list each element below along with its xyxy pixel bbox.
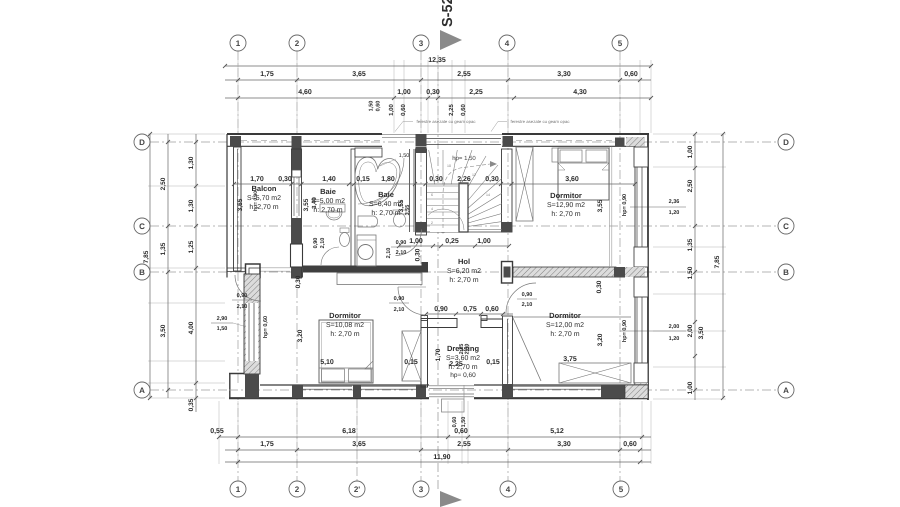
extension line right [653, 246, 726, 248]
extension line left [148, 382, 225, 384]
dim tick [217, 435, 221, 439]
wall top outer line thin mid [382, 134, 502, 136]
svg-text:2,10: 2,10 [394, 307, 405, 313]
extension line right [653, 330, 726, 332]
grid line 2' [356, 399, 358, 481]
dim line hol y246 [399, 245, 509, 247]
dim tick [300, 182, 304, 186]
extension line top [420, 60, 422, 133]
balcony door frame box [246, 264, 261, 278]
svg-text:A: A [139, 386, 145, 395]
svg-text:3,65: 3,65 [352, 441, 366, 448]
svg-text:B: B [783, 268, 789, 277]
svg-text:4: 4 [505, 39, 510, 48]
svg-text:0,15: 0,15 [486, 359, 500, 366]
svg-text:S=12,00 m2: S=12,00 m2 [546, 322, 584, 329]
grid line B [150, 271, 778, 273]
column grid5-B [614, 267, 625, 277]
svg-text:0,75: 0,75 [463, 306, 477, 313]
svg-text:Dormitor: Dormitor [549, 311, 581, 320]
svg-text:2,55: 2,55 [457, 71, 471, 78]
svg-text:hp= 0,90: hp= 0,90 [622, 194, 628, 216]
glazing grid2 wall mid [293, 177, 295, 216]
extension line top [427, 60, 429, 133]
wall left lower [244, 274, 260, 374]
dim tick [439, 244, 443, 248]
extension line bottom [296, 401, 298, 464]
corner column A-left [245, 375, 259, 399]
wardrobe dormitor top-right [516, 147, 533, 221]
svg-text:0,90: 0,90 [313, 238, 319, 249]
column stair left bottom [416, 222, 427, 233]
grid bubble 4 bottom [500, 481, 516, 497]
dim tick [236, 96, 240, 100]
dim tick [166, 270, 170, 274]
wall dressing top left [421, 319, 457, 328]
extension line top [437, 60, 439, 133]
grid bubble 1 top [230, 35, 246, 51]
dim tick [446, 435, 450, 439]
column grid2-B [292, 267, 303, 278]
wall top center dash [241, 140, 291, 142]
dim tick [510, 182, 514, 186]
svg-text:1,75: 1,75 [260, 71, 274, 78]
balcony parapet [234, 147, 242, 271]
extension line right [653, 133, 726, 135]
glass band baie2 top [382, 137, 416, 139]
dim tick [499, 182, 503, 186]
svg-text:Hol: Hol [458, 257, 470, 266]
grid bubble 2' bottom [349, 481, 365, 497]
svg-text:0,60: 0,60 [400, 104, 407, 116]
dim tick [431, 244, 435, 248]
wall top outer line thick left [227, 133, 382, 135]
extension line top [296, 60, 298, 133]
svg-text:2,10: 2,10 [237, 304, 248, 310]
svg-text:1,50: 1,50 [217, 326, 228, 332]
column grid3-D [416, 134, 427, 147]
window frame box right low [634, 363, 648, 383]
dormitor2 top edge [513, 316, 631, 318]
dim line y314 corridor [426, 313, 513, 315]
extension line right [653, 398, 726, 400]
svg-text:3,30: 3,30 [557, 71, 571, 78]
extension line left [148, 185, 225, 187]
wall baie2 right [409, 149, 411, 232]
svg-text:3,55: 3,55 [405, 205, 411, 216]
svg-text:5,12: 5,12 [550, 428, 564, 435]
svg-text:1,00: 1,00 [687, 145, 694, 158]
section marker top [440, 30, 462, 50]
extension line bottom [447, 401, 449, 464]
svg-text:1,40: 1,40 [322, 176, 336, 183]
dim tick [236, 448, 240, 452]
svg-text:0,30: 0,30 [295, 275, 302, 288]
svg-text:0,60: 0,60 [623, 441, 637, 448]
dim tick [693, 354, 697, 358]
svg-text:0,60: 0,60 [452, 417, 458, 428]
door arc balcony bottom [235, 275, 261, 301]
wall top inner line right [502, 145, 635, 147]
grid bubble 1 bottom [230, 481, 246, 497]
corner tub baie2 [355, 157, 400, 206]
svg-text:2': 2' [354, 485, 360, 494]
column grid2-A [292, 385, 303, 398]
window frame box right mid1 [634, 247, 648, 267]
bed bottom-left [319, 320, 373, 383]
svg-text:1,50: 1,50 [461, 417, 467, 428]
svg-text:2,36: 2,36 [669, 199, 680, 205]
window sill grid2 [292, 170, 301, 177]
dim tick [506, 78, 510, 82]
grid line C [150, 225, 778, 227]
svg-text:1,75: 1,75 [260, 441, 274, 448]
column grid5-B2 [614, 267, 625, 278]
corner column A-left dark [245, 375, 259, 399]
svg-text:S-52: S-52 [440, 0, 456, 27]
svg-text:4,60: 4,60 [298, 89, 312, 96]
bed pillows top-right [560, 150, 582, 162]
wall top inner line left [227, 145, 382, 147]
section line S-52 [437, 55, 439, 490]
dim tick [693, 320, 697, 324]
dim tick [473, 244, 477, 248]
dim tick [232, 182, 236, 186]
wall bottom outer line [229, 397, 429, 399]
column dorm2 door-A [502, 385, 513, 398]
extension line left [148, 267, 225, 269]
column dorm2-A small [502, 384, 513, 397]
svg-text:0,55: 0,55 [210, 428, 224, 435]
stair fan treads [428, 145, 528, 230]
note leader left [395, 122, 413, 132]
grid line 1 [237, 51, 239, 481]
grid bubble C left [134, 218, 150, 234]
wall stair left [416, 149, 427, 235]
svg-text:1,25: 1,25 [188, 240, 195, 253]
svg-text:1,20: 1,20 [669, 210, 680, 216]
svg-text:3,50: 3,50 [160, 324, 167, 337]
stair bottom edge [427, 231, 502, 233]
extension line bottom [641, 401, 643, 464]
svg-text:0,35: 0,35 [188, 398, 195, 411]
dim tick [236, 460, 240, 464]
grid bubble 2 bottom [289, 481, 305, 497]
dim line left mid [167, 134, 169, 398]
svg-text:3,60: 3,60 [565, 176, 579, 183]
svg-text:0,30: 0,30 [415, 248, 422, 261]
sink baie1 [326, 212, 342, 220]
dim tick [693, 132, 697, 136]
dim tick [507, 244, 511, 248]
dim tick [352, 182, 356, 186]
dim line interior y184 [234, 183, 635, 185]
grid line 5 [619, 51, 621, 481]
svg-text:2,10: 2,10 [386, 248, 392, 259]
stair straight treads [427, 185, 459, 187]
dim tick [618, 448, 622, 452]
svg-text:2,10: 2,10 [396, 250, 407, 256]
svg-text:hp= 0,60: hp= 0,60 [263, 316, 269, 338]
svg-text:2,10: 2,10 [320, 238, 326, 249]
wall baie bottom [303, 266, 422, 273]
window right upper hp=0,90 [636, 167, 638, 247]
svg-text:2,55: 2,55 [457, 441, 471, 448]
window bottom lines 1 [303, 385, 352, 387]
svg-text:C: C [783, 222, 789, 231]
svg-text:0,60: 0,60 [460, 104, 467, 116]
extension line top [619, 60, 621, 133]
column dorm1 door-B [502, 262, 513, 284]
svg-text:2,25: 2,25 [469, 89, 483, 96]
dim tick [618, 78, 622, 82]
svg-text:ferestre asezate cu geam opac: ferestre asezate cu geam opac [417, 119, 477, 124]
dim line row3 bottom [225, 461, 651, 463]
dim tick [693, 166, 697, 170]
svg-text:hp= 0,60: hp= 0,60 [450, 372, 476, 379]
svg-text:0,15: 0,15 [404, 359, 418, 366]
dim tick [640, 435, 644, 439]
grid bubble 3 bottom [413, 481, 429, 497]
window stair top hp=1,50 [426, 138, 501, 140]
svg-text:0,25: 0,25 [445, 238, 459, 245]
svg-text:hp= 1,50: hp= 1,50 [452, 155, 476, 162]
svg-text:C: C [139, 222, 145, 231]
column grid2'-A [353, 385, 361, 398]
bed pillows bottom-left [322, 369, 345, 382]
svg-text:S=6,20 m2: S=6,20 m2 [447, 268, 481, 275]
svg-text:A: A [783, 386, 789, 395]
dim line row1 bottom [219, 436, 651, 438]
dim tick [693, 224, 697, 228]
svg-text:4,00: 4,00 [188, 321, 195, 334]
dim tick [466, 435, 470, 439]
bed top-right [558, 148, 609, 200]
extension line right [653, 366, 726, 368]
extension line right [653, 166, 726, 168]
svg-text:2: 2 [295, 485, 300, 494]
window niche baie2 [355, 148, 382, 157]
extension line bottom [420, 401, 422, 464]
extension line left [148, 397, 225, 399]
wall dormitor2 left vertical [503, 316, 513, 387]
column grid1-D [230, 136, 241, 147]
svg-text:h: 2,70 m: h: 2,70 m [551, 210, 580, 218]
svg-text:2: 2 [295, 39, 300, 48]
wall dressing top right [481, 319, 503, 328]
svg-text:Dormitor: Dormitor [329, 311, 361, 320]
column stair right bottom [502, 222, 513, 233]
svg-text:3,55: 3,55 [597, 199, 604, 212]
section marker bottom [440, 491, 462, 507]
svg-text:h: 2,70 m: h: 2,70 m [371, 209, 400, 217]
svg-text:1,80: 1,80 [381, 176, 395, 183]
dim tick [194, 224, 198, 228]
grid bubble A left [134, 382, 150, 398]
svg-text:0,90: 0,90 [434, 306, 448, 313]
svg-text:0,30: 0,30 [429, 176, 443, 183]
svg-text:2,25: 2,25 [448, 104, 455, 116]
dim tick [166, 224, 170, 228]
extension line bottom [619, 401, 621, 464]
dim tick [693, 388, 697, 392]
dim tick [424, 182, 428, 186]
bed blanket line [558, 162, 609, 164]
hatch right pier2 [635, 383, 648, 397]
dim line row2 top [225, 79, 651, 81]
svg-text:11,90: 11,90 [433, 454, 450, 461]
svg-text:2,50: 2,50 [687, 179, 694, 192]
dim tick [693, 270, 697, 274]
door arc hol top [396, 230, 422, 256]
svg-text:0,60: 0,60 [624, 71, 638, 78]
nightstand right [609, 147, 611, 268]
dim tick [236, 435, 240, 439]
window right lower hp=0,90 [636, 297, 638, 363]
svg-text:1,35: 1,35 [687, 238, 694, 251]
extension line bottom [467, 401, 469, 464]
dash row A over band [229, 389, 648, 391]
wall stair right [502, 149, 513, 232]
svg-text:Dormitor: Dormitor [550, 191, 582, 200]
grid bubble 4 top [499, 35, 515, 51]
dim tick [392, 96, 396, 100]
svg-text:7,85: 7,85 [143, 250, 150, 263]
svg-text:1: 1 [236, 485, 241, 494]
extension line top [393, 60, 395, 133]
grid line 4 [507, 51, 509, 481]
balcony bottom glazing [260, 267, 290, 269]
svg-text:1,00: 1,00 [397, 89, 411, 96]
dim tick [638, 448, 642, 452]
dim tick [638, 78, 642, 82]
svg-text:0,60: 0,60 [376, 101, 382, 112]
extension line top [507, 60, 509, 133]
dim tick [194, 266, 198, 270]
wall grid2 vertical [292, 149, 302, 278]
dim tick [295, 78, 299, 82]
svg-text:4: 4 [506, 485, 511, 494]
counter baie1 [320, 204, 345, 212]
svg-text:1,30: 1,30 [188, 156, 195, 169]
dim line right inner [694, 134, 696, 400]
svg-text:5: 5 [618, 39, 623, 48]
svg-text:10: 10 [447, 164, 451, 168]
dim tick [501, 312, 505, 316]
svg-text:12: 12 [472, 173, 476, 177]
wardrobe dormitor bottom-left [402, 331, 421, 381]
wall bottom exterior band [229, 385, 648, 399]
svg-text:1,00: 1,00 [388, 104, 395, 116]
svg-text:1,30: 1,30 [188, 199, 195, 212]
dim tick [413, 182, 417, 186]
window frame box right top [634, 147, 648, 167]
column grid3-A [416, 385, 426, 398]
stair mid stringer [459, 183, 468, 232]
svg-text:5,10: 5,10 [320, 359, 334, 366]
svg-text:2: 2 [431, 221, 433, 225]
svg-text:3,65: 3,65 [352, 71, 366, 78]
column grid5-D [615, 138, 625, 147]
corner hatch bottom right [625, 385, 648, 399]
svg-text:0,60: 0,60 [485, 306, 499, 313]
window bottom lines 2 [361, 385, 416, 387]
svg-text:3,50: 3,50 [698, 326, 705, 339]
svg-text:1,00: 1,00 [409, 238, 423, 245]
extension line top [639, 60, 641, 133]
svg-text:D: D [139, 138, 145, 147]
grid line A [150, 389, 778, 391]
grid line D [150, 141, 778, 143]
svg-text:4,30: 4,30 [573, 89, 587, 96]
svg-text:2,25: 2,25 [449, 361, 463, 368]
svg-text:0,90: 0,90 [396, 240, 407, 246]
window dressing bottom hp=0,60 [429, 385, 474, 387]
dim tick [506, 448, 510, 452]
svg-text:0,90: 0,90 [237, 293, 248, 299]
balcony bottom rail [227, 267, 246, 269]
extension line bottom [218, 401, 220, 464]
svg-text:S=10,08 m2: S=10,08 m2 [326, 322, 364, 329]
grid bubble B right [778, 264, 794, 280]
extension line left [148, 302, 225, 304]
extension line top [650, 60, 652, 133]
dim line total 12,35 [225, 65, 651, 67]
svg-text:0,90: 0,90 [394, 296, 405, 302]
dim tick [649, 96, 653, 100]
grid bubble 2 top [289, 35, 305, 51]
grid line 3 [420, 51, 422, 481]
sink baie2 [358, 216, 378, 227]
extension line bottom [356, 401, 358, 464]
plinth corner left [229, 373, 246, 375]
svg-text:14: 14 [486, 193, 490, 197]
stair walk line [443, 164, 490, 228]
exterior step [442, 399, 465, 412]
wall bottom top line [260, 384, 429, 386]
extension line bottom [461, 401, 463, 464]
svg-text:Baie: Baie [378, 190, 394, 199]
svg-text:2,50: 2,50 [160, 177, 167, 190]
grid bubble 5 top [612, 35, 628, 51]
svg-text:h: 2,70 m: h: 2,70 m [330, 330, 359, 338]
dim tick [166, 388, 170, 392]
svg-text:2,00: 2,00 [669, 324, 680, 330]
svg-text:1,50: 1,50 [687, 266, 694, 279]
svg-text:3,55: 3,55 [303, 198, 310, 211]
svg-text:1,00: 1,00 [477, 238, 491, 245]
svg-text:3: 3 [419, 39, 424, 48]
column stair left top [416, 147, 427, 153]
dim tick [194, 140, 198, 144]
extension line left [148, 360, 225, 362]
column grid2 mid [292, 218, 302, 244]
window frame box right mid2 [634, 277, 648, 297]
svg-text:1: 1 [236, 39, 241, 48]
grid bubble C right [778, 218, 794, 234]
grid bubble D right [778, 134, 794, 150]
svg-text:3: 3 [419, 485, 424, 494]
dim tick [347, 182, 351, 186]
svg-text:3,30: 3,30 [557, 441, 571, 448]
dim tick [290, 182, 294, 186]
dim tick [397, 244, 401, 248]
toilet baie2 [393, 210, 406, 214]
grid bubble 3 top [413, 35, 429, 51]
dim tick [194, 381, 198, 385]
dim tick [424, 312, 428, 316]
note leader right [491, 122, 507, 132]
